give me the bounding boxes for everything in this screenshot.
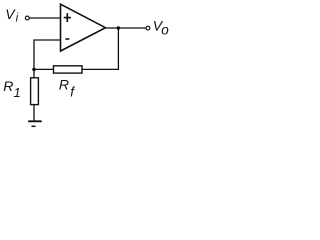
- svg-text:f: f: [70, 85, 75, 100]
- svg-text:i: i: [16, 13, 19, 25]
- resistor Rf: [54, 66, 83, 73]
- wire R1 to ground: [33, 105, 35, 122]
- svg-text:1: 1: [14, 85, 21, 100]
- svg-text:R: R: [59, 77, 69, 93]
- terminal Vo (open circle): [146, 26, 150, 30]
- node Vi label: [5, 6, 18, 25]
- node B junction dot (output): [117, 26, 121, 30]
- wire op-amp output: [106, 27, 146, 29]
- resistor R1: [31, 78, 39, 105]
- node A junction dot: [32, 68, 36, 72]
- svg-text:V: V: [5, 6, 16, 22]
- wire Vi to op-amp + input: [29, 17, 60, 19]
- wire node A to R1: [33, 69, 35, 77]
- terminal Vi (open circle): [25, 16, 29, 20]
- wire Rf to output node: [82, 28, 118, 69]
- label Rf: [59, 77, 75, 100]
- op-amp - pin mark: [65, 38, 69, 40]
- node Vo label: [153, 17, 170, 37]
- ground: [28, 121, 42, 126]
- svg-text:o: o: [161, 23, 169, 38]
- wire node A to Rf: [34, 68, 54, 70]
- label R1: [3, 78, 20, 100]
- op-amp U1: [61, 4, 106, 51]
- op-amp + pin mark: [64, 13, 71, 22]
- svg-text:R: R: [3, 78, 13, 94]
- wire feedback to op-amp - input: [34, 40, 61, 69]
